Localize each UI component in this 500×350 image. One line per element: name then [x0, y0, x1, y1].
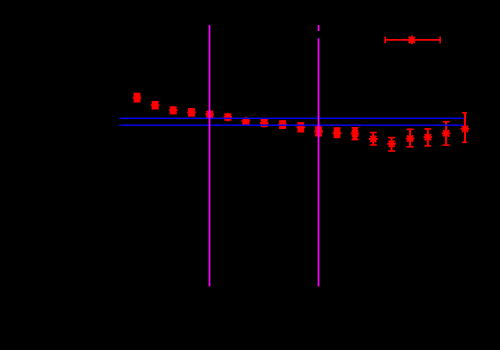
data point t=9 with error bar [278, 120, 287, 129]
data point t=14 with error bar [369, 133, 378, 146]
data point t=8 with error bar [260, 119, 269, 128]
fit range marker line right (gap where black legend text overlaps) [318, 25, 320, 287]
data point t=16 with error bar [406, 129, 415, 147]
data point t=1 with error bar [133, 93, 142, 102]
data point t=15 with error bar [387, 138, 396, 151]
data point t=12 with error bar [333, 128, 342, 137]
legend error-bar sample [385, 36, 440, 45]
data point t=3 with error bar [169, 106, 178, 115]
data point t=18 with error bar [442, 122, 451, 145]
fit band lower line [119, 124, 463, 126]
data point t=19 with error bar [461, 113, 470, 143]
data point t=4 with error bar [187, 108, 196, 117]
data point t=10 with error bar [297, 123, 306, 132]
data point t=6 with error bar [224, 113, 233, 122]
data point t=7 with error bar [242, 117, 251, 126]
data point t=2 with error bar [151, 101, 160, 110]
data point t=13 with error bar [351, 128, 360, 140]
data point t=17 with error bar [424, 129, 433, 146]
fit band upper line [119, 117, 463, 119]
data point t=5 with error bar [205, 110, 214, 119]
data point t=11 with error bar [314, 127, 323, 136]
fit range marker line left [209, 25, 211, 287]
